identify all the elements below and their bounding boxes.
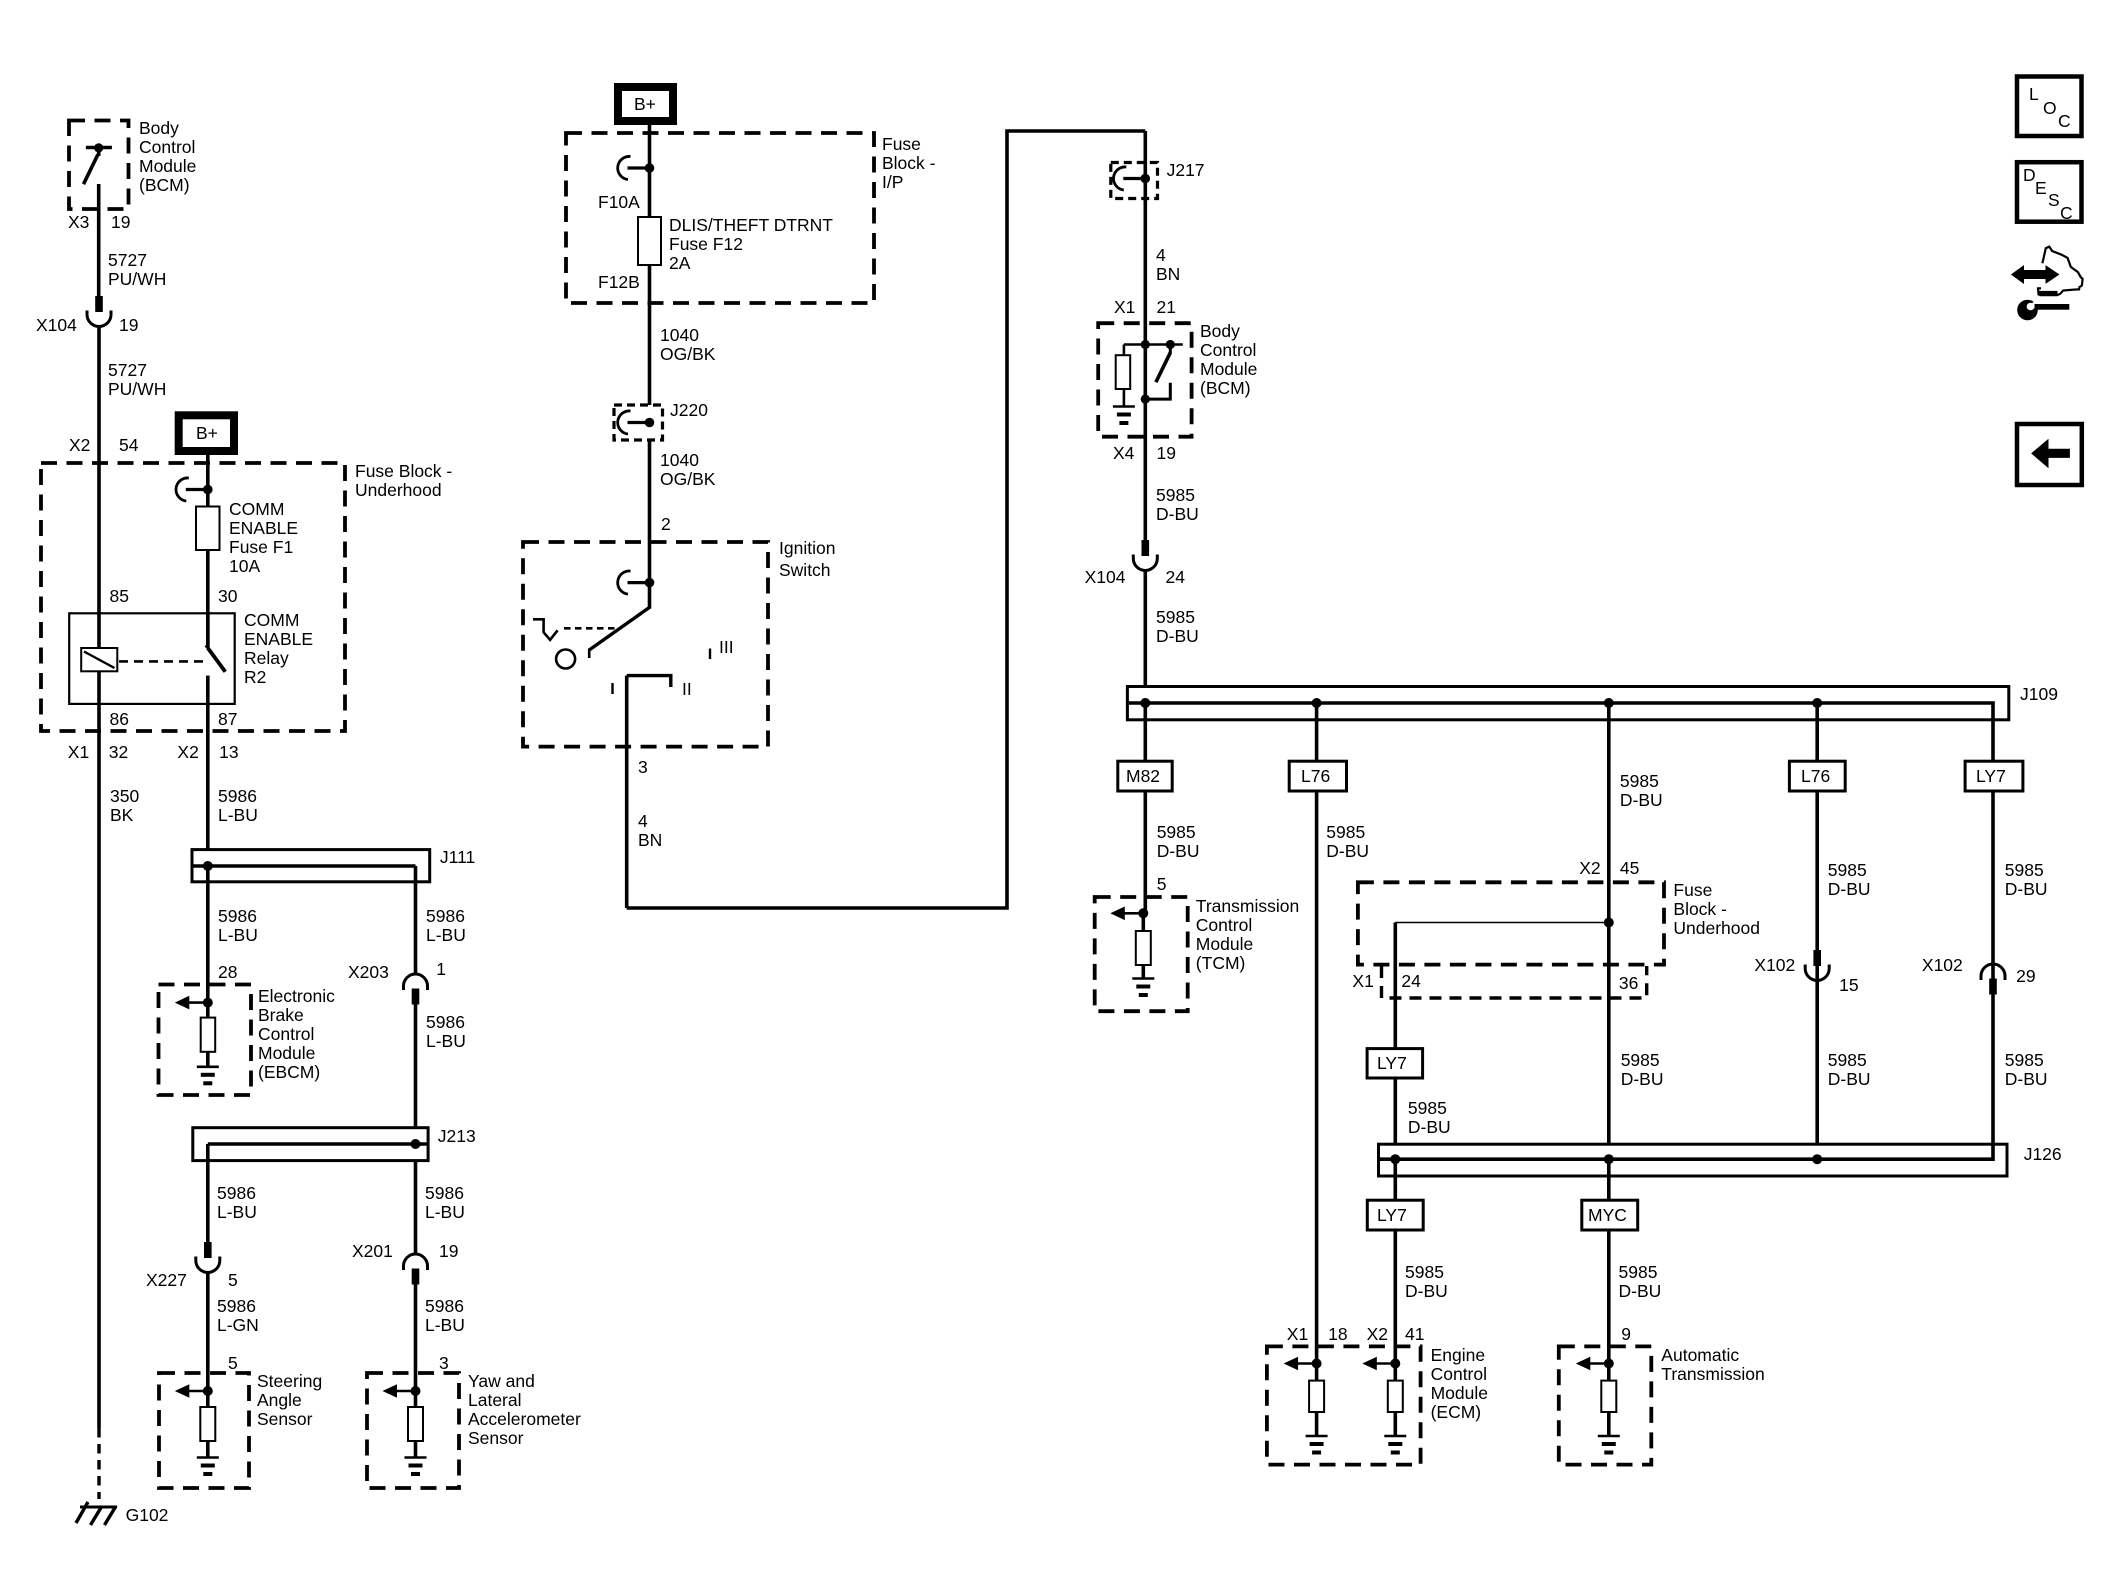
svg-text:R2: R2 — [244, 667, 266, 687]
svg-text:Body: Body — [1200, 321, 1240, 341]
svg-text:O: O — [2043, 98, 2057, 118]
svg-text:Module: Module — [258, 1043, 315, 1063]
svg-text:D-BU: D-BU — [1326, 841, 1369, 861]
Ignition Switch dashed box — [523, 542, 768, 747]
LY7 right branch — [1991, 761, 1995, 1159]
ground G102 — [76, 1502, 168, 1525]
svg-text:Engine: Engine — [1431, 1345, 1486, 1365]
pins 86 87 — [110, 709, 238, 729]
connector X102 pin 29 — [1981, 964, 2005, 995]
connector X102 pin 15 — [1805, 950, 1829, 981]
svg-text:Steering: Steering — [257, 1371, 322, 1391]
svg-text:19: 19 — [439, 1241, 458, 1261]
pin labels X1 32 X2 13 — [68, 742, 239, 762]
svg-text:(BCM): (BCM) — [139, 175, 190, 195]
svg-text:L-BU: L-BU — [426, 925, 466, 945]
module TCM — [1095, 897, 1188, 1011]
svg-text:L-BU: L-BU — [425, 1315, 465, 1335]
svg-text:5: 5 — [228, 1353, 238, 1373]
svg-text:19: 19 — [1157, 443, 1176, 463]
svg-text:10A: 10A — [229, 556, 260, 576]
svg-text:4: 4 — [638, 811, 648, 831]
svg-text:Switch: Switch — [779, 560, 831, 580]
relay coil — [81, 648, 117, 671]
svg-text:J217: J217 — [1167, 160, 1205, 180]
svg-text:15: 15 — [1839, 975, 1858, 995]
svg-text:32: 32 — [109, 742, 128, 762]
wire run from ignition to J217 — [627, 131, 1146, 908]
svg-text:X104: X104 — [1085, 567, 1126, 587]
svg-text:5985: 5985 — [1828, 860, 1867, 880]
wire label 1040 OG/BK — [648, 440, 652, 583]
BCM interior switch branch — [1141, 340, 1175, 404]
connector code L76 second — [1789, 761, 1845, 791]
svg-text:5986: 5986 — [426, 906, 465, 926]
wire 5986 L-BU relay to J111 — [206, 731, 210, 866]
junction and branch inside fuse block — [1395, 918, 1614, 928]
wire 5727 PU/WH from BCM to X104 — [97, 184, 101, 296]
svg-text:9: 9 — [1621, 1324, 1631, 1344]
svg-text:D-BU: D-BU — [1156, 504, 1199, 524]
svg-text:5727: 5727 — [108, 360, 147, 380]
fuse block terminal hook — [176, 478, 213, 501]
svg-text:BN: BN — [638, 830, 662, 850]
svg-text:Fuse: Fuse — [1673, 880, 1712, 900]
svg-text:54: 54 — [119, 435, 139, 455]
wire 4 BN to BCM — [1144, 179, 1148, 345]
svg-text:1: 1 — [436, 959, 446, 979]
svg-text:OG/BK: OG/BK — [660, 344, 716, 364]
module Automatic Transmission — [1559, 1346, 1652, 1464]
pin labels X2 54 — [69, 435, 139, 455]
pin labels X4 19 — [1113, 443, 1176, 463]
svg-text:Module: Module — [1431, 1383, 1488, 1403]
connector X227 pin 5 — [196, 1242, 220, 1273]
connector code L76 — [1289, 761, 1346, 791]
svg-text:Yaw and: Yaw and — [468, 1371, 535, 1391]
svg-text:41: 41 — [1405, 1324, 1424, 1344]
connector code LY7 below J126 — [1367, 1200, 1423, 1230]
module ECM — [1267, 1346, 1421, 1464]
svg-text:X102: X102 — [1754, 955, 1795, 975]
svg-text:350: 350 — [110, 786, 139, 806]
svg-text:Module: Module — [1196, 934, 1253, 954]
svg-text:5: 5 — [1157, 874, 1167, 894]
svg-text:X3: X3 — [68, 212, 89, 232]
svg-text:29: 29 — [2016, 966, 2035, 986]
svg-text:Body: Body — [139, 118, 179, 138]
svg-text:L-BU: L-BU — [425, 1202, 465, 1222]
pin labels X2 45 — [1579, 858, 1639, 878]
svg-text:86: 86 — [110, 709, 129, 729]
Fuse Block - Underhood right dashed box — [1358, 882, 1664, 964]
svg-text:ENABLE: ENABLE — [244, 629, 313, 649]
svg-text:D-BU: D-BU — [2005, 879, 2048, 899]
svg-text:D-BU: D-BU — [1156, 626, 1199, 646]
svg-text:LY7: LY7 — [1976, 766, 2006, 786]
svg-text:Transmission: Transmission — [1196, 896, 1299, 916]
svg-text:5986: 5986 — [217, 1296, 256, 1316]
wire to J213 — [414, 1004, 418, 1144]
svg-text:Accelerometer: Accelerometer — [468, 1409, 581, 1429]
wire 5985 D-BU to J109 — [1144, 570, 1148, 703]
svg-text:LY7: LY7 — [1377, 1053, 1407, 1073]
svg-text:D-BU: D-BU — [1408, 1117, 1451, 1137]
wire B+ into fuse block — [206, 455, 210, 489]
svg-text:5985: 5985 — [1621, 1050, 1660, 1070]
svg-text:3: 3 — [439, 1353, 449, 1373]
svg-text:D-BU: D-BU — [1828, 879, 1871, 899]
B+ terminal left — [175, 411, 238, 455]
wire 5727 PU/WH from X104 to fuse block — [97, 326, 101, 648]
svg-text:2: 2 — [661, 514, 671, 534]
pin 3 wire down — [625, 676, 629, 908]
svg-text:D-BU: D-BU — [1621, 1069, 1664, 1089]
svg-text:5986: 5986 — [218, 786, 257, 806]
svg-text:G102: G102 — [126, 1505, 169, 1525]
svg-text:19: 19 — [111, 212, 130, 232]
connector code LY7 right — [1965, 761, 2023, 791]
connector code M82 — [1118, 761, 1172, 791]
svg-text:5985: 5985 — [2005, 1050, 2044, 1070]
svg-text:1040: 1040 — [660, 450, 699, 470]
pin labels X3 19 — [68, 212, 130, 232]
Fuse Block - Underhood dashed box — [41, 463, 345, 731]
svg-text:D: D — [2023, 165, 2036, 185]
svg-text:X1: X1 — [68, 742, 89, 762]
module BCM top-left dashed box — [69, 121, 129, 210]
svg-text:L76: L76 — [1801, 766, 1830, 786]
svg-text:X201: X201 — [352, 1241, 393, 1261]
label Body Control Module (BCM) — [139, 118, 196, 195]
svg-text:L-BU: L-BU — [218, 925, 258, 945]
svg-text:X4: X4 — [1113, 443, 1135, 463]
svg-text:18: 18 — [1328, 1324, 1347, 1344]
module Steering Angle Sensor — [159, 1373, 249, 1488]
svg-text:13: 13 — [219, 742, 238, 762]
svg-text:(BCM): (BCM) — [1200, 378, 1251, 398]
wire B+ down — [648, 125, 652, 168]
svg-text:PU/WH: PU/WH — [108, 269, 166, 289]
svg-text:85: 85 — [110, 586, 129, 606]
svg-text:3: 3 — [638, 757, 648, 777]
L76 second branch — [1815, 703, 1819, 1159]
svg-text:28: 28 — [218, 962, 237, 982]
svg-text:Fuse Block -: Fuse Block - — [355, 461, 452, 481]
svg-text:J126: J126 — [2024, 1144, 2062, 1164]
svg-text:S: S — [2048, 190, 2060, 210]
svg-text:Electronic: Electronic — [258, 986, 335, 1006]
svg-text:DLIS/THEFT DTRNT: DLIS/THEFT DTRNT — [669, 215, 833, 235]
relay control dashed link — [119, 660, 203, 663]
BCM main wire through — [1144, 345, 1148, 438]
B+ terminal middle — [614, 83, 677, 125]
svg-text:Automatic: Automatic — [1661, 1345, 1739, 1365]
svg-text:X1: X1 — [1114, 297, 1135, 317]
relay switch — [206, 613, 226, 731]
svg-text:87: 87 — [218, 709, 237, 729]
wire J111 left branch to EBCM — [206, 866, 210, 1002]
icon LOC — [2017, 77, 2082, 137]
position III mark — [709, 649, 711, 660]
wire J213 right branch — [414, 1161, 418, 1254]
svg-text:MYC: MYC — [1588, 1205, 1627, 1225]
svg-text:Ignition: Ignition — [779, 538, 835, 558]
icon DESC — [2017, 162, 2082, 223]
ignition lock glyph — [533, 619, 617, 640]
svg-text:19: 19 — [119, 315, 138, 335]
svg-text:D-BU: D-BU — [1620, 790, 1663, 810]
svg-text:C: C — [2058, 111, 2071, 131]
svg-text:5985: 5985 — [2005, 860, 2044, 880]
svg-text:5986: 5986 — [218, 906, 257, 926]
icon back arrow — [2017, 424, 2082, 485]
svg-text:LY7: LY7 — [1377, 1205, 1407, 1225]
svg-text:III: III — [719, 637, 734, 657]
Fuse Block - I/P dashed box — [566, 133, 874, 303]
pins 85 30 — [110, 586, 238, 606]
svg-text:24: 24 — [1401, 971, 1421, 991]
svg-text:Underhood: Underhood — [355, 480, 442, 500]
wire LY7 to ECM X2 — [1394, 1159, 1398, 1363]
wire 5986 L-GN — [206, 1272, 210, 1391]
svg-text:Lateral: Lateral — [468, 1390, 522, 1410]
svg-text:X2: X2 — [69, 435, 90, 455]
svg-text:Transmission: Transmission — [1661, 1364, 1764, 1384]
dashed wire to ground — [97, 1428, 100, 1499]
svg-text:E: E — [2035, 178, 2047, 198]
svg-text:BN: BN — [1156, 264, 1180, 284]
svg-text:2A: 2A — [669, 253, 691, 273]
svg-text:X2: X2 — [177, 742, 198, 762]
svg-text:L-BU: L-BU — [217, 1202, 257, 1222]
svg-text:L: L — [2029, 84, 2039, 104]
svg-text:B+: B+ — [196, 423, 218, 443]
svg-text:X227: X227 — [146, 1270, 187, 1290]
wire label 1040 OG/BK — [660, 325, 716, 364]
connector X203 pin 1 — [348, 959, 446, 982]
svg-text:PU/WH: PU/WH — [108, 379, 166, 399]
fuse block terminal hook — [618, 156, 655, 179]
svg-text:45: 45 — [1620, 858, 1639, 878]
svg-text:D-BU: D-BU — [1405, 1281, 1448, 1301]
svg-text:D-BU: D-BU — [1619, 1281, 1662, 1301]
svg-text:5985: 5985 — [1828, 1050, 1867, 1070]
splice J213 — [193, 1126, 476, 1161]
connector code LY7 — [1367, 1049, 1423, 1078]
svg-text:5985: 5985 — [1157, 822, 1196, 842]
module Yaw and Lateral Accelerometer Sensor — [367, 1373, 459, 1488]
svg-text:5985: 5985 — [1405, 1262, 1444, 1282]
svg-text:Relay: Relay — [244, 648, 289, 668]
svg-text:5: 5 — [228, 1270, 238, 1290]
svg-text:4: 4 — [1156, 245, 1166, 265]
svg-text:Module: Module — [139, 156, 196, 176]
svg-text:Control: Control — [1196, 915, 1252, 935]
svg-text:ENABLE: ENABLE — [229, 518, 298, 538]
wire MYC to automatic transmission — [1607, 1159, 1611, 1363]
svg-text:D-BU: D-BU — [2005, 1069, 2048, 1089]
splice J109 — [1127, 684, 2058, 761]
svg-text:5985: 5985 — [1156, 485, 1195, 505]
icon connector-view (double arrow with part outline and wrench) — [2013, 247, 2083, 321]
svg-text:D-BU: D-BU — [1157, 841, 1200, 861]
svg-text:Sensor: Sensor — [468, 1428, 524, 1448]
svg-text:L-BU: L-BU — [426, 1031, 466, 1051]
svg-text:Fuse F12: Fuse F12 — [669, 234, 743, 254]
svg-text:5985: 5985 — [1619, 1262, 1658, 1282]
position II contact wire — [627, 676, 671, 687]
svg-text:Block -: Block - — [1673, 899, 1727, 919]
svg-text:Underhood: Underhood — [1673, 918, 1760, 938]
L76 branch wire to ECM X1 — [1315, 703, 1319, 1364]
svg-text:L-GN: L-GN — [217, 1315, 259, 1335]
svg-text:36: 36 — [1619, 973, 1638, 993]
svg-text:Control: Control — [258, 1024, 314, 1044]
svg-text:5985: 5985 — [1620, 771, 1659, 791]
module BCM right dashed box — [1098, 323, 1191, 437]
svg-text:X2: X2 — [1367, 1324, 1388, 1344]
svg-text:D-BU: D-BU — [1828, 1069, 1871, 1089]
fuse F1 — [206, 490, 210, 649]
fuse F12 — [648, 168, 652, 405]
M82 branch wire — [1144, 703, 1148, 913]
svg-text:C: C — [2060, 203, 2073, 223]
svg-text:5986: 5986 — [217, 1183, 256, 1203]
pin labels X1 18 X2 41 — [1287, 1324, 1425, 1344]
svg-text:J220: J220 — [670, 400, 708, 420]
svg-text:Control: Control — [1200, 340, 1256, 360]
svg-text:J109: J109 — [2020, 684, 2058, 704]
wire 5986 L-BU to yaw sensor — [414, 1283, 418, 1391]
svg-text:J213: J213 — [438, 1126, 476, 1146]
pin labels X1 21 — [1114, 297, 1176, 317]
pin labels X1 24 36 — [1352, 971, 1638, 993]
svg-text:L-BU: L-BU — [218, 805, 258, 825]
ignition terminal hook — [618, 571, 655, 594]
wire J111 right branch down — [414, 866, 418, 974]
svg-text:COMM: COMM — [244, 610, 299, 630]
svg-text:5727: 5727 — [108, 250, 147, 270]
svg-text:5985: 5985 — [1408, 1098, 1447, 1118]
wire 36 down to J126 — [1621, 1050, 1664, 1089]
connector J217 — [1111, 131, 1205, 199]
svg-text:Control: Control — [1431, 1364, 1487, 1384]
svg-text:I/P: I/P — [882, 172, 903, 192]
svg-text:30: 30 — [218, 586, 238, 606]
svg-text:X102: X102 — [1922, 955, 1963, 975]
svg-text:M82: M82 — [1126, 766, 1160, 786]
svg-text:X203: X203 — [348, 962, 389, 982]
svg-text:J111: J111 — [440, 847, 475, 867]
X1 connector strip — [1382, 966, 1647, 998]
svg-text:II: II — [682, 679, 692, 699]
module EBCM — [159, 985, 252, 1096]
BCM internal switch — [84, 143, 112, 184]
svg-text:X2: X2 — [1579, 858, 1600, 878]
svg-text:5986: 5986 — [425, 1296, 464, 1316]
svg-text:Block -: Block - — [882, 153, 936, 173]
connector X104 pin 19 — [87, 296, 111, 327]
svg-text:X1: X1 — [1352, 971, 1373, 991]
ignition switch mechanism — [556, 583, 650, 669]
splice J111 — [192, 847, 475, 882]
svg-text:5985: 5985 — [1156, 607, 1195, 627]
svg-text:Brake: Brake — [258, 1005, 304, 1025]
connector X104 pin 24 — [1133, 540, 1157, 571]
svg-text:Sensor: Sensor — [257, 1409, 313, 1429]
position I mark — [611, 683, 613, 694]
wire 5985 D-BU — [1144, 437, 1148, 540]
svg-text:F12B: F12B — [598, 272, 640, 292]
X2/45 branch wire — [1607, 703, 1611, 1159]
svg-text:5986: 5986 — [425, 1183, 464, 1203]
connector X201 pin 19 — [352, 1241, 458, 1261]
svg-text:Fuse F1: Fuse F1 — [229, 537, 293, 557]
svg-text:Module: Module — [1200, 359, 1257, 379]
svg-text:1040: 1040 — [660, 325, 699, 345]
svg-text:21: 21 — [1157, 297, 1176, 317]
wire J213 left branch — [206, 1144, 210, 1242]
svg-text:OG/BK: OG/BK — [660, 469, 716, 489]
svg-text:BK: BK — [110, 805, 134, 825]
svg-text:Control: Control — [139, 137, 195, 157]
svg-text:(EBCM): (EBCM) — [258, 1062, 320, 1082]
svg-text:(TCM): (TCM) — [1196, 953, 1246, 973]
connector J220 — [614, 400, 708, 440]
svg-text:COMM: COMM — [229, 499, 284, 519]
svg-text:Angle: Angle — [257, 1390, 302, 1410]
svg-text:F10A: F10A — [598, 192, 640, 212]
svg-text:Fuse: Fuse — [882, 134, 921, 154]
svg-text:5986: 5986 — [426, 1012, 465, 1032]
svg-text:5985: 5985 — [1326, 822, 1365, 842]
connector code MYC — [1582, 1200, 1638, 1230]
svg-text:(ECM): (ECM) — [1431, 1402, 1482, 1422]
svg-text:X1: X1 — [1287, 1324, 1308, 1344]
wire 350 BK — [97, 671, 101, 1428]
wire X1/24 down through LY7 — [1394, 923, 1398, 1160]
BCM interior resistor branch — [1113, 340, 1183, 423]
svg-text:24: 24 — [1166, 567, 1186, 587]
svg-text:L76: L76 — [1301, 766, 1330, 786]
svg-text:X104: X104 — [36, 315, 77, 335]
relay R2 box — [69, 613, 235, 704]
svg-text:B+: B+ — [634, 94, 656, 114]
splice J126 — [1379, 1144, 2062, 1176]
